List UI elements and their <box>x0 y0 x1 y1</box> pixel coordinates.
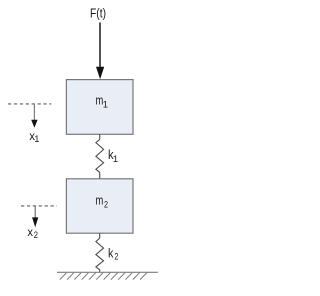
svg-text:k: k <box>108 246 114 260</box>
ground line <box>57 271 158 273</box>
svg-text:x: x <box>27 225 33 239</box>
x1 arrow stem <box>33 104 35 121</box>
x2 datum dashed line <box>21 205 57 207</box>
x2 arrowhead <box>32 217 38 227</box>
svg-text:F(t): F(t) <box>90 7 106 21</box>
mass m2 box <box>66 179 133 233</box>
force arrowhead <box>96 67 104 79</box>
x1 datum dashed line <box>8 103 51 105</box>
svg-text:1: 1 <box>103 100 108 111</box>
svg-text:2: 2 <box>34 230 38 241</box>
spring k1 <box>96 134 104 178</box>
svg-text:m: m <box>96 193 104 208</box>
spring k2 <box>96 233 104 272</box>
mass m1 box <box>66 80 133 135</box>
svg-text:1: 1 <box>113 154 118 165</box>
ground hatching <box>60 273 147 280</box>
svg-text:1: 1 <box>34 134 39 144</box>
x1 arrowhead <box>31 120 37 128</box>
force arrow shaft <box>99 23 101 69</box>
x2 arrow stem <box>34 206 36 218</box>
svg-text:2: 2 <box>104 200 108 211</box>
svg-text:2: 2 <box>114 251 118 262</box>
